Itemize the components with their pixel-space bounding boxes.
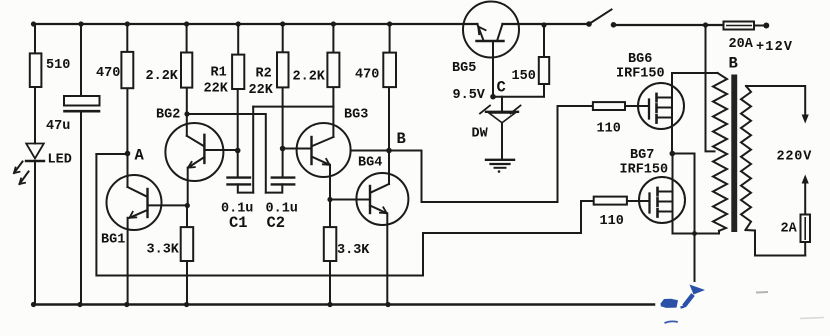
svg-text:9.5V: 9.5V: [453, 88, 486, 103]
svg-text:BG6: BG6: [628, 52, 652, 67]
svg-text:20A: 20A: [729, 37, 754, 52]
svg-text:IRF150: IRF150: [616, 67, 665, 82]
svg-text:2A: 2A: [781, 222, 798, 237]
svg-text:22K: 22K: [204, 82, 229, 97]
svg-text:470: 470: [355, 68, 379, 83]
svg-text:+12V: +12V: [756, 40, 793, 55]
svg-text:110: 110: [597, 122, 621, 137]
svg-text:3.3K: 3.3K: [147, 243, 180, 258]
svg-text:BG3: BG3: [344, 108, 368, 123]
svg-text:22K: 22K: [249, 83, 274, 98]
svg-text:DW: DW: [472, 127, 489, 142]
svg-text:220V: 220V: [777, 150, 813, 165]
svg-text:C: C: [497, 79, 506, 97]
svg-text:2.2K: 2.2K: [293, 70, 326, 85]
svg-text:510: 510: [46, 58, 70, 73]
svg-text:C1: C1: [229, 214, 248, 232]
svg-text:110: 110: [600, 214, 624, 229]
svg-text:BG1: BG1: [101, 233, 125, 248]
svg-text:47u: 47u: [46, 119, 70, 134]
svg-text:IRF150: IRF150: [620, 163, 669, 178]
svg-text:R1: R1: [211, 66, 227, 81]
svg-text:2.2K: 2.2K: [146, 69, 179, 84]
svg-text:3.3K: 3.3K: [337, 243, 370, 258]
svg-text:B: B: [397, 130, 406, 148]
svg-text:BG7: BG7: [630, 148, 654, 163]
svg-text:B: B: [729, 55, 738, 73]
svg-text:A: A: [135, 147, 145, 165]
svg-text:BG2: BG2: [156, 108, 180, 123]
svg-text:BG5: BG5: [452, 61, 476, 76]
svg-text:LED: LED: [48, 153, 72, 168]
svg-text:150: 150: [512, 69, 536, 84]
svg-text:C2: C2: [267, 214, 286, 232]
svg-text:BG4: BG4: [358, 156, 382, 171]
svg-text:470: 470: [96, 66, 120, 81]
svg-text:R2: R2: [256, 67, 272, 82]
